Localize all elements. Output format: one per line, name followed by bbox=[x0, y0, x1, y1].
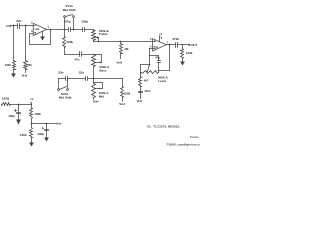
svg-text:In: In bbox=[6, 24, 9, 28]
junction C8 bottom bbox=[158, 70, 159, 71]
wire corner down to R6 bbox=[122, 79, 124, 87]
svg-text:U1 : TLC2272, NE5532,: U1 : TLC2272, NE5532, bbox=[147, 125, 180, 129]
wire C11 to ground bbox=[46, 131, 48, 138]
svg-text:OUT: OUT bbox=[191, 43, 197, 47]
capacitor C5 33n bbox=[58, 71, 67, 81]
label 100k-A mid bbox=[99, 91, 110, 95]
pin 7 label U1b bbox=[167, 41, 169, 44]
note U1 types bbox=[147, 125, 180, 129]
svg-text:Vref: Vref bbox=[22, 74, 28, 78]
mix rail wire bbox=[94, 41, 153, 43]
svg-text:100k: 100k bbox=[186, 51, 193, 55]
label Bass bbox=[99, 69, 107, 73]
wire pot corner to R8 bbox=[140, 73, 142, 78]
capacitor C11 100u vref bbox=[37, 128, 48, 137]
resistor R10 100k upper bbox=[30, 109, 42, 119]
pin 6 label U1b bbox=[150, 45, 152, 48]
wire C1 to U1a bbox=[20, 25, 34, 27]
junction bass top bbox=[93, 54, 94, 55]
svg-text:Mid Shift: Mid Shift bbox=[59, 96, 72, 100]
wire R2 to Vref bbox=[25, 70, 27, 73]
net label Vref under R2 bbox=[22, 74, 28, 78]
wire mid to Vref bbox=[93, 98, 95, 100]
capacitor C10 100u bbox=[8, 110, 20, 119]
pin 1 label U1a bbox=[48, 26, 50, 29]
label Level bbox=[158, 79, 166, 83]
Vref rail wire bbox=[32, 123, 56, 125]
junction mix at R5 bbox=[120, 41, 122, 43]
ground under C11 bbox=[44, 138, 49, 142]
net label Vref under R5 bbox=[116, 61, 122, 65]
svg-text:10M: 10M bbox=[5, 63, 11, 67]
junction at C8 tee bbox=[149, 55, 150, 56]
capacitor C9 470n vref bbox=[139, 89, 151, 93]
svg-text:Vref: Vref bbox=[119, 102, 125, 106]
ground pin stub U1a bbox=[42, 32, 44, 37]
net label Vref under C9 bbox=[137, 99, 143, 103]
junction at R7 bbox=[182, 44, 183, 45]
svg-text:1M: 1M bbox=[27, 63, 32, 67]
resistor R8 4k7 bbox=[139, 78, 149, 87]
pin 5 label U1b bbox=[150, 38, 152, 41]
label Mid Shift SV1b bbox=[59, 96, 72, 100]
wire R6 to Vref bbox=[122, 98, 124, 102]
potentiometer VR2 500k-A Bass bbox=[92, 55, 102, 67]
label SV1b bbox=[61, 92, 69, 96]
wire R9 to +V bbox=[11, 104, 32, 106]
capacitor C6 22n bbox=[79, 71, 88, 81]
wire pin6 down bbox=[150, 49, 153, 65]
wire R1 to ground bbox=[13, 70, 15, 74]
junction at SV1a right bbox=[73, 29, 75, 31]
net label Vref under mid pot bbox=[93, 100, 99, 104]
resistor R6 100k bbox=[121, 87, 131, 98]
svg-text:Bass: Bass bbox=[99, 69, 107, 73]
wire down to R11 bbox=[31, 124, 33, 128]
junction before C1 bbox=[13, 25, 15, 27]
input pad In bbox=[6, 24, 11, 28]
svg-text:470n: 470n bbox=[172, 37, 179, 41]
svg-text:Vref: Vref bbox=[116, 61, 122, 65]
junction mix at treble bbox=[98, 41, 99, 42]
junction mid rail bbox=[93, 78, 95, 80]
junction bass wiper bbox=[100, 62, 101, 63]
svg-text:150p: 150p bbox=[81, 20, 88, 24]
wire 47n rail right bbox=[82, 54, 94, 56]
svg-text:Treble: Treble bbox=[99, 32, 108, 36]
resistor R3 200k bbox=[63, 37, 74, 48]
ground under R1 bbox=[11, 74, 16, 78]
ground under R11 bbox=[29, 143, 34, 147]
net label +V at U1b bbox=[159, 32, 163, 36]
ground under R7 bbox=[180, 62, 185, 66]
resistor R5 1M mix bbox=[120, 44, 129, 54]
wire rail to 100k corner bbox=[94, 78, 123, 80]
svg-text:Mid Shift: Mid Shift bbox=[63, 8, 76, 12]
svg-text:100µ: 100µ bbox=[8, 114, 15, 118]
note title bbox=[190, 135, 199, 139]
svg-text:47n: 47n bbox=[74, 58, 79, 62]
op-amp U1b bbox=[153, 39, 167, 51]
svg-text:+V: +V bbox=[159, 32, 163, 36]
junction after C1 bbox=[25, 25, 27, 27]
junction U1b output node bbox=[169, 44, 171, 46]
feedback wire U1a bbox=[30, 30, 51, 45]
pin 3 label U1a bbox=[31, 30, 33, 33]
svg-text:100k: 100k bbox=[124, 91, 131, 95]
wire C7 to OUT bbox=[178, 44, 189, 46]
wire C9 to Vref bbox=[140, 93, 142, 99]
junction at C10 bbox=[18, 104, 20, 106]
op-amp U1a bbox=[33, 23, 46, 35]
wire U1a output bbox=[47, 29, 51, 31]
svg-text:U1a: U1a bbox=[35, 28, 40, 31]
ground under U1a bbox=[40, 37, 45, 41]
wire In to C1 bbox=[12, 25, 18, 27]
wire C3 to treble pot bbox=[85, 29, 94, 31]
capacitor C7 470n bbox=[172, 37, 179, 48]
wire R10 to Vref node bbox=[31, 119, 33, 124]
svg-text:Vref: Vref bbox=[93, 100, 99, 104]
label SV1a bbox=[65, 4, 73, 8]
net label Vref under R6 bbox=[119, 102, 125, 106]
wiper loop mid bbox=[94, 83, 103, 89]
svg-text:470n: 470n bbox=[144, 89, 151, 93]
wire treble bottom bbox=[93, 41, 95, 42]
wire R11 to ground bbox=[31, 138, 33, 143]
power +V stub U1b bbox=[159, 35, 161, 41]
label 500k-B bbox=[99, 29, 110, 33]
resistor R2 1M bbox=[24, 61, 33, 70]
svg-text:100k: 100k bbox=[20, 133, 27, 137]
note copyright bbox=[167, 143, 205, 147]
switch SV1a bbox=[64, 15, 75, 30]
capacitor C3 150p bbox=[81, 20, 88, 32]
wiper loop bass bbox=[94, 55, 102, 63]
svg-text:100Ω: 100Ω bbox=[2, 97, 10, 101]
resistor R7 100k out bbox=[181, 49, 193, 59]
wire treble wiper down bbox=[98, 38, 100, 42]
wire into pot right bbox=[158, 71, 160, 73]
wire into treble pot bbox=[93, 30, 95, 31]
svg-text:4k7: 4k7 bbox=[144, 79, 149, 83]
wire 47n rail left bbox=[65, 54, 80, 56]
wire R7 to ground bbox=[182, 59, 184, 62]
wire down to R2 bbox=[25, 26, 27, 61]
pin 8 label U1b bbox=[161, 37, 163, 40]
potentiometer VR3 100k-A Mid bbox=[92, 84, 103, 98]
svg-text:33n: 33n bbox=[58, 71, 63, 75]
wire C6 to mid junction bbox=[88, 78, 94, 80]
ground under C10 bbox=[16, 120, 21, 125]
junction SV1b right bbox=[67, 78, 68, 79]
svg-text:1M: 1M bbox=[124, 47, 129, 51]
wire R8 to C9 bbox=[140, 87, 142, 92]
svg-text:Level: Level bbox=[158, 79, 166, 83]
junction at R3 SV1a left bbox=[64, 29, 66, 31]
label 500k-A bass bbox=[99, 65, 110, 69]
power +V symbol bbox=[30, 97, 34, 103]
feedback wire right side bbox=[169, 45, 171, 71]
wire +V down to R10 bbox=[31, 104, 33, 109]
wire U1a out to C2 bbox=[51, 29, 69, 31]
wire 33n rail bbox=[59, 78, 66, 80]
feedback wire bottom bbox=[159, 70, 170, 72]
wire pot left corner bbox=[141, 65, 150, 73]
wire top to R3 bbox=[64, 30, 66, 37]
label Mid Shift SV1a bbox=[63, 8, 76, 12]
potentiometer VR4 500k-A Level bbox=[142, 65, 159, 74]
junction Vref node bbox=[31, 123, 33, 125]
wire into bass pot bbox=[93, 54, 95, 56]
potentiometer VR1 500k-B Treble bbox=[92, 31, 99, 41]
resistor R9 100R bbox=[2, 97, 11, 106]
capacitor C4 47n bbox=[74, 52, 81, 62]
svg-text:+V: +V bbox=[30, 97, 34, 101]
svg-text:47p: 47p bbox=[155, 56, 160, 60]
label Mid bbox=[99, 94, 104, 98]
capacitor C1 22n bbox=[16, 19, 21, 28]
label 500k-A level bbox=[158, 76, 169, 80]
wire down to R1 bbox=[13, 26, 15, 61]
wire C2 to C3 bbox=[71, 29, 83, 31]
svg-text:22n: 22n bbox=[16, 19, 21, 23]
wire down to R7 bbox=[182, 45, 184, 49]
svg-text:100k: 100k bbox=[34, 112, 41, 116]
wire R5 to Vref bbox=[120, 54, 122, 59]
junction treble wiper bbox=[97, 37, 99, 39]
junction mid wiper bbox=[99, 88, 100, 89]
junction U1a output node bbox=[50, 29, 52, 31]
wire between C5 C6 bbox=[68, 78, 86, 80]
wire down to C10 bbox=[18, 105, 20, 112]
wire tee to C8 bbox=[150, 55, 159, 57]
output pad OUT bbox=[189, 43, 198, 47]
svg-text:©2005, runoffgroove.com: ©2005, runoffgroove.com bbox=[167, 143, 201, 147]
wire U1b output bbox=[167, 44, 176, 46]
junction mid loop bbox=[93, 82, 94, 83]
label Treble bbox=[99, 32, 108, 36]
svg-text:Vref: Vref bbox=[56, 122, 62, 126]
wire down to C11 bbox=[46, 124, 48, 130]
switch SV1b bbox=[58, 79, 69, 91]
svg-text:100µ: 100µ bbox=[37, 132, 44, 136]
svg-text:200k: 200k bbox=[66, 40, 73, 44]
pin 2 label U1a bbox=[31, 22, 33, 25]
wire R3 to 47n rail bbox=[64, 48, 66, 55]
svg-text:22n: 22n bbox=[79, 71, 84, 75]
net label Vref supply bbox=[56, 122, 62, 126]
junction wiper node bbox=[149, 64, 151, 66]
wire C10 to ground bbox=[18, 114, 20, 120]
resistor R11 100k lower bbox=[20, 128, 33, 138]
capacitor C8 47p bbox=[155, 56, 161, 71]
svg-text:Tonem: Tonem bbox=[190, 135, 199, 139]
wire bass to mid bbox=[93, 67, 95, 84]
resistor R1 10M bbox=[5, 61, 16, 70]
capacitor C2 220p bbox=[64, 20, 71, 32]
wire mix to R5 bbox=[120, 42, 122, 44]
junction at C11 bbox=[46, 123, 48, 125]
svg-text:Vref: Vref bbox=[137, 99, 143, 103]
svg-text:Mid: Mid bbox=[99, 94, 104, 98]
